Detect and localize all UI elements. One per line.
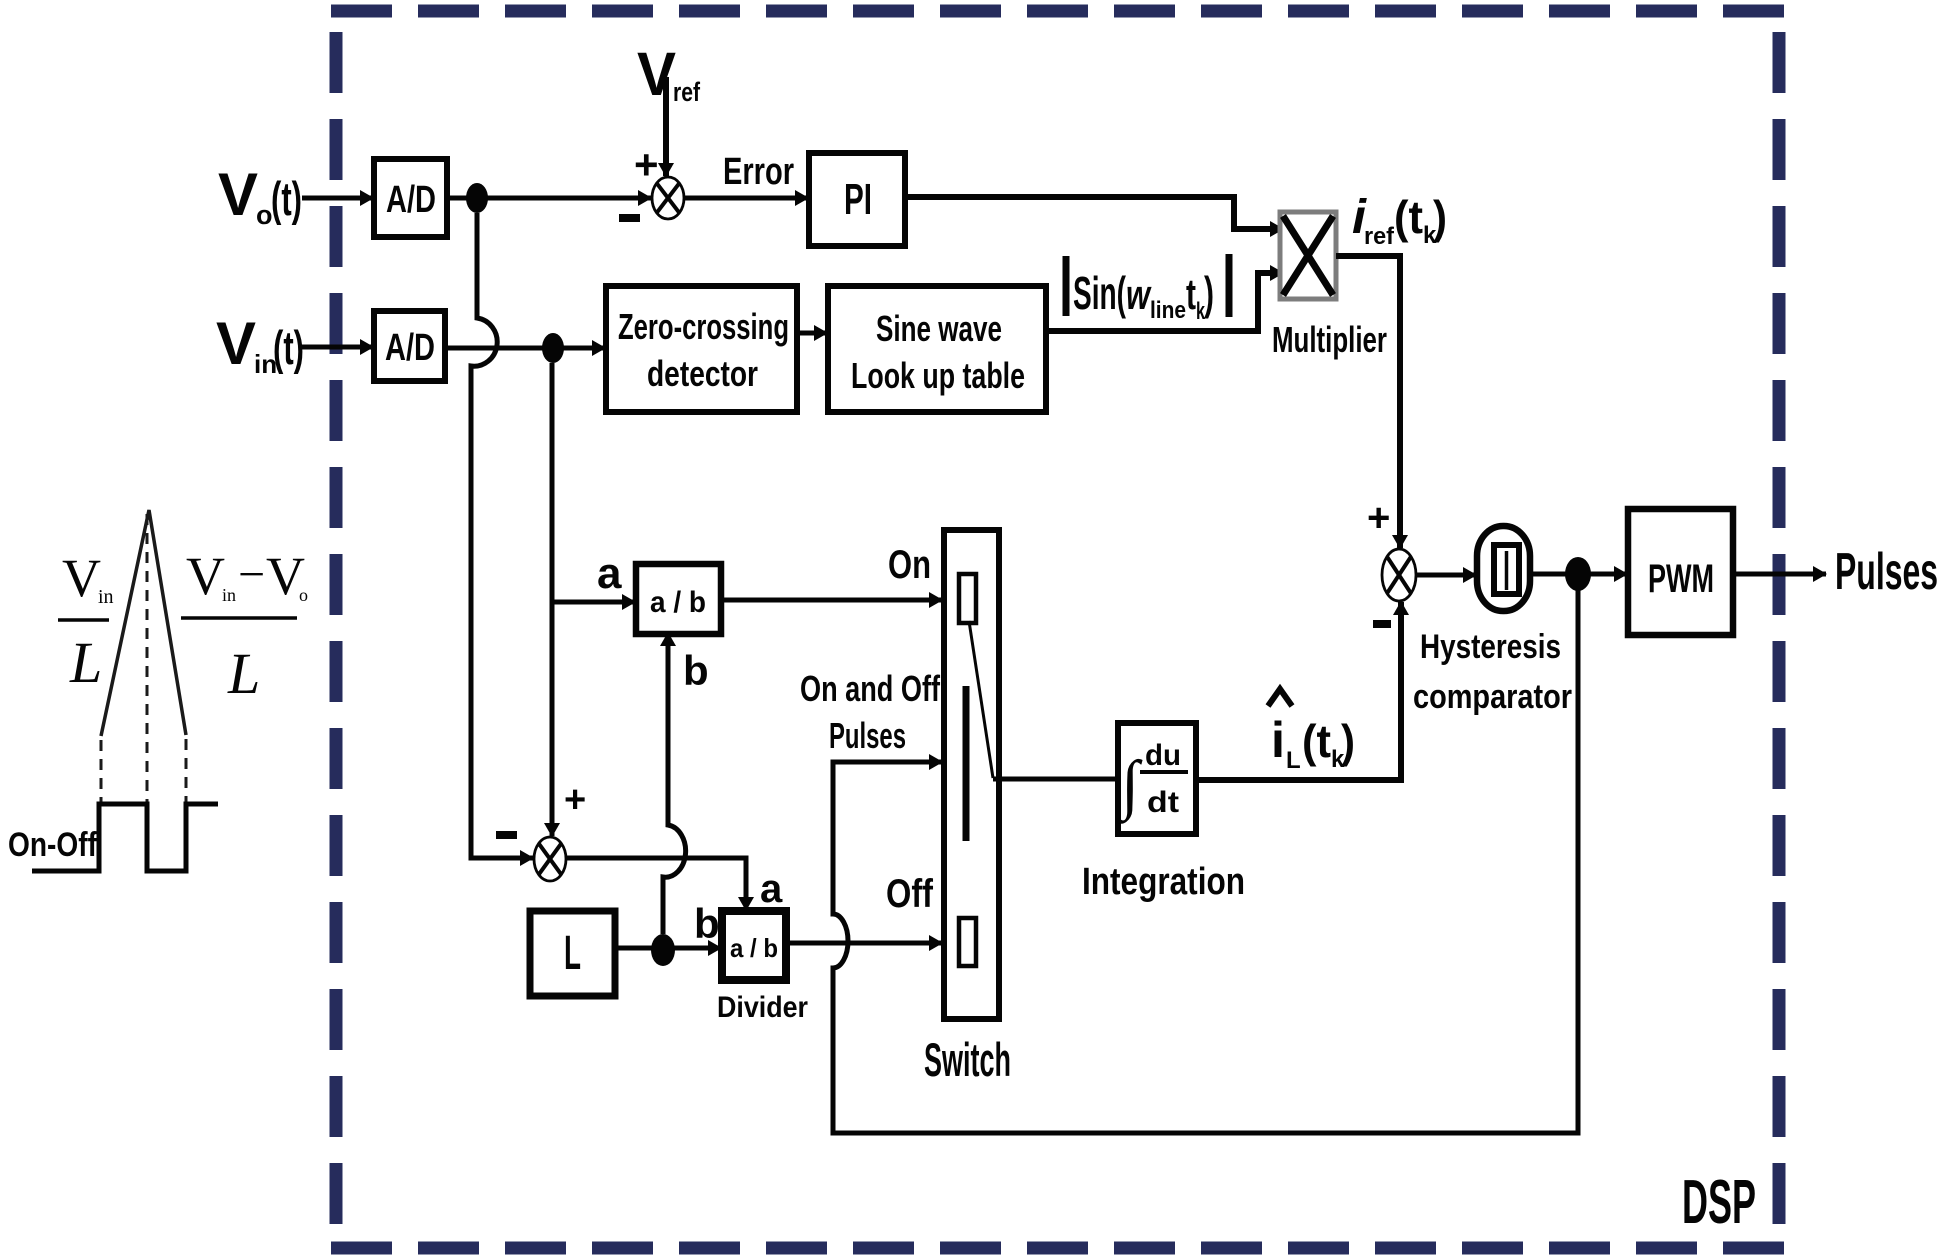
wire PWM output to Pulses [1733,572,1826,577]
node On and Off Pulses label [800,668,941,756]
svg-text:detector: detector [647,353,758,394]
svg-text:A/D: A/D [386,179,436,221]
wire PI to multiplier upper input [905,197,1283,229]
node Vin/L fraction label [58,548,114,695]
svg-text:line: line [1150,297,1186,324]
wire Vin(t) to A/D2 [302,345,373,350]
svg-text:dt: dt [1147,786,1179,819]
wire zero-crossing detector to sine wave lookup table [797,331,827,336]
svg-text:Pulses: Pulses [829,715,906,756]
svg-text:+: + [564,779,586,821]
svg-text:w: w [1126,271,1152,318]
svg-text:in: in [98,586,114,608]
node (Vin-Vo)/L fraction label [181,546,308,706]
svg-text:+: + [634,141,659,188]
svg-text:+: + [1367,496,1390,540]
summing junction S3 [1382,549,1416,601]
svg-text:Hysteresis: Hysteresis [1420,628,1561,666]
node minus sign at S3 [1373,620,1391,628]
svg-text:On: On [888,543,931,587]
svg-text:V: V [62,548,101,608]
wire A/D2 output to zero-crossing detector [445,346,605,351]
svg-text:Pulses: Pulses [1835,543,1938,601]
svg-text:in: in [222,585,236,605]
wire Vo(t) to A/D1 [302,196,373,201]
svg-text:): ) [1433,191,1447,243]
node i_ref(t_k) label [1352,191,1447,250]
wire switch output to integration [993,777,1118,782]
dashed verticals of waveform [101,514,186,804]
svg-text:comparator: comparator [1413,678,1572,716]
node i_L(t_k) hat label [1268,689,1355,774]
svg-text:): ) [1204,267,1214,319]
node Vo(t) input label [218,161,302,230]
node Vref label [637,40,701,108]
wire lower divider to switch Off input [786,941,942,946]
svg-text:On and Off: On and Off [800,668,941,709]
svg-text:L: L [564,927,581,980]
svg-text:DSP: DSP [1682,1168,1756,1237]
node minus sign at S1 [619,214,640,222]
block A/D 1 [374,159,447,237]
svg-text:Divider: Divider [717,991,808,1024]
svg-text:V: V [637,40,676,108]
inductor current triangle waveform [101,510,186,736]
summing junction S1 [652,177,684,219]
junction dot after A/D2 [542,333,564,363]
svg-text:Zero-crossing: Zero-crossing [618,306,789,347]
wire b input up into upper divider with hop [663,633,686,934]
junction dot after A/D1 [466,183,488,213]
svg-text:L: L [69,630,102,695]
svg-text:t: t [1186,270,1196,319]
block switch [944,530,999,1019]
wire upper divider to switch On input [721,598,942,603]
svg-text:V: V [218,161,258,228]
svg-text:(t: (t [1302,715,1331,767]
svg-text:PWM: PWM [1648,557,1714,601]
block hysteresis comparator [1477,526,1530,611]
svg-text:a: a [760,867,783,911]
block multiplier [1280,212,1336,299]
wire S3 to hysteresis comparator [1416,573,1476,578]
svg-text:PI: PI [844,175,872,224]
svg-text:Sine wave: Sine wave [876,308,1002,349]
block L [530,911,615,996]
block PWM [1628,509,1733,635]
wire A/D2 dot down to summing junction S2 plus input [550,363,555,836]
svg-text:Switch: Switch [924,1033,1011,1086]
wire multiplier output down to summing junction S3 [1336,256,1400,548]
block A/D 2 [374,311,445,381]
summing junction S2 [534,837,566,881]
wire A/D1 output to summing junction S1 [447,196,651,201]
wire feedback from PWM junction to switch pulses input with hop [833,574,1578,1133]
node Vin(t) input label [216,310,304,379]
wire branch to upper divider a input [552,600,635,605]
svg-text:(t): (t) [271,172,302,225]
svg-text:): ) [1341,715,1355,767]
DSP boundary dashed box [331,11,1789,1248]
svg-text:L: L [1286,747,1301,774]
svg-text:i: i [1271,712,1285,768]
block integration [1117,723,1196,834]
svg-text:o: o [299,585,308,605]
wire hysteresis to PWM [1530,572,1627,577]
svg-text:−: − [238,548,265,601]
block PI [809,153,905,246]
svg-text:V: V [186,546,225,606]
wire L to lower divider b input [615,946,721,951]
svg-text:a / b: a / b [730,933,778,963]
on-off square pulse waveform [32,804,218,871]
svg-text:Multiplier: Multiplier [1272,319,1387,360]
wire from A/D1 dot down with hop to summing junction S2 [471,213,533,858]
junction dot on L output [651,934,675,966]
svg-text:du: du [1145,739,1181,772]
svg-text:ref: ref [673,77,701,107]
wire S2 output to lower divider a input [566,858,746,910]
svg-text:L: L [227,641,260,706]
svg-text:b: b [694,900,720,947]
svg-text:a / b: a / b [650,586,706,619]
node |Sin(w_line t_k)| label [1066,254,1229,325]
svg-text:Look up table: Look up table [851,355,1025,396]
block divider a/b upper [636,564,721,634]
svg-text:Error: Error [723,151,794,193]
wire S1 to PI [684,196,808,201]
svg-text:b: b [683,647,709,694]
block zero-crossing detector [606,286,797,412]
svg-text:A/D: A/D [385,327,435,369]
block sine wave look up table [828,286,1046,412]
svg-text:On-Off: On-Off [8,826,98,864]
svg-text:ref: ref [1364,223,1395,250]
svg-text:V: V [216,310,256,377]
wire Vref down into S1 [663,77,669,176]
node minus sign at S2 [496,831,517,839]
svg-text:Integration: Integration [1082,861,1245,903]
svg-text:Off: Off [886,872,934,916]
wire sine wave table to multiplier lower input [1046,273,1283,331]
svg-text:(t: (t [1394,191,1423,243]
block divider a/b lower [722,911,786,980]
svg-text:Sin(: Sin( [1073,267,1126,319]
wire integration output to S3 minus input [1196,602,1401,780]
svg-text:a: a [597,549,622,598]
junction dot after hysteresis [1565,557,1591,591]
node Hysteresis comparator label [1413,628,1572,716]
svg-text:(t): (t) [273,321,304,374]
